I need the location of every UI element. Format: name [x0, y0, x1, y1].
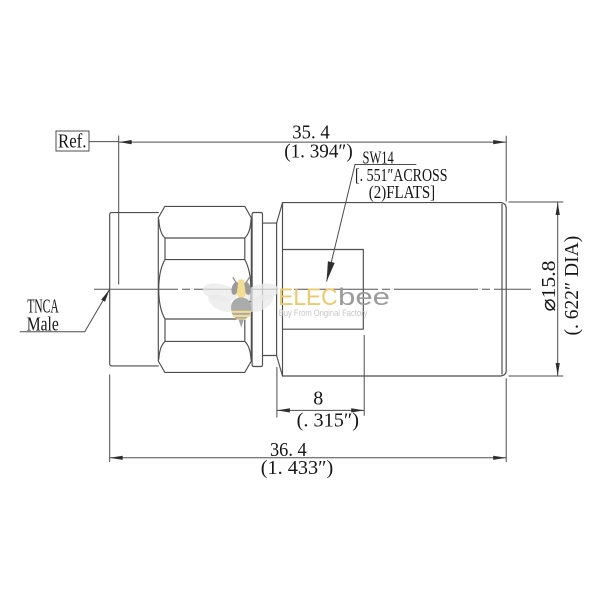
extension line right (8) [363, 335, 365, 416]
body front face [276, 223, 278, 355]
arrow 8 right [351, 408, 364, 412]
arrowheads [101, 140, 560, 460]
body front chamfer cone [277, 203, 283, 376]
hex face line upper-1 [165, 237, 245, 239]
bee stinger [239, 320, 244, 328]
svg-text:(1. 394″): (1. 394″) [284, 141, 353, 163]
svg-text:(1. 433″): (1. 433″) [261, 457, 334, 479]
extension line top (dia 15.8) [509, 201, 564, 203]
arrow 36.4 left [110, 456, 123, 460]
arrow 35.4 left [119, 140, 132, 144]
small shoulder cylinder [263, 223, 277, 355]
gasket ring [252, 213, 262, 367]
SW14 leader line [327, 165, 417, 282]
arrow dia bottom [556, 363, 560, 376]
extension line left (Ref / 35.4) [118, 136, 120, 285]
bee abdomen [231, 298, 251, 320]
body end inner line [501, 205, 503, 375]
bee abdomen stripes [231, 311, 251, 320]
hex outer-face chamfer arcs [159, 220, 251, 360]
dimension line 8 [277, 409, 364, 411]
svg-text:(. 622″ DIA): (. 622″ DIA) [561, 236, 583, 336]
svg-text:(. 315″): (. 315″) [297, 409, 359, 431]
connector outline drawing [110, 203, 507, 376]
hex face line upper-2 [165, 259, 245, 261]
dimension line dia 15.8 [557, 202, 559, 376]
bee eyes [230, 281, 240, 296]
SW14 flats square [283, 250, 364, 330]
dimension line 35.4 [119, 141, 507, 143]
wire: left threaded barrel of TNCA male [110, 213, 159, 366]
arrow SW14 leader [327, 261, 335, 281]
Ref connector line [89, 141, 119, 143]
bee antennae [233, 277, 250, 284]
arrow 35.4 right [493, 140, 506, 144]
hex face line lower-2 [165, 340, 245, 342]
arrow TNCA leader [101, 290, 109, 302]
extension line right (35.4) [505, 136, 507, 202]
hex vertex verticals [165, 238, 245, 341]
extension line bottom (dia 15.8) [509, 375, 564, 377]
svg-text:Male: Male [27, 313, 59, 335]
arrow 36.4 right [493, 456, 506, 460]
svg-text:8: 8 [313, 388, 323, 410]
svg-text:Buy From Original Factory: Buy From Original Factory [279, 308, 368, 319]
hex middle-face lens arcs [159, 260, 251, 319]
bee right wings [243, 281, 281, 305]
watermark group [201, 277, 390, 328]
dimension line 36.4 [110, 457, 507, 459]
Ref box [56, 131, 89, 151]
bee left wings [201, 281, 280, 316]
body chamfer vertical line [282, 203, 284, 376]
extension line right (36.4) [505, 378, 507, 462]
centerline [94, 288, 531, 290]
svg-text:⌀15.8: ⌀15.8 [538, 261, 560, 312]
hex nut outline [158, 206, 251, 372]
extension line left (36.4) [109, 375, 111, 463]
svg-text:(2)FLATS]: (2)FLATS] [369, 182, 435, 203]
TNCA leader line [20, 290, 110, 332]
hex face line lower-1 [165, 318, 245, 320]
svg-text:Ref.: Ref. [58, 130, 87, 152]
bee thorax yellow wedge [237, 279, 246, 304]
extension line left (8) [276, 367, 278, 418]
dimension and extension lines [20, 131, 564, 462]
arrow dia top [556, 202, 560, 215]
arrow 8 left [277, 408, 290, 412]
main body outline [283, 203, 507, 376]
